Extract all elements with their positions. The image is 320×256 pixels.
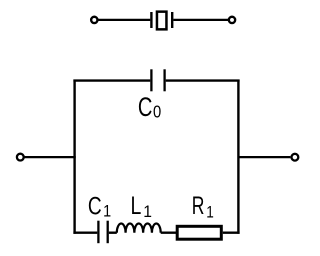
svg-text:C: C bbox=[138, 93, 153, 122]
svg-text:1: 1 bbox=[143, 203, 152, 222]
svg-text:1: 1 bbox=[206, 203, 214, 222]
svg-text:R: R bbox=[192, 191, 205, 220]
svg-text:1: 1 bbox=[103, 203, 111, 221]
svg-text:C: C bbox=[88, 192, 102, 220]
svg-text:L: L bbox=[131, 192, 142, 220]
svg-text:0: 0 bbox=[153, 102, 161, 121]
